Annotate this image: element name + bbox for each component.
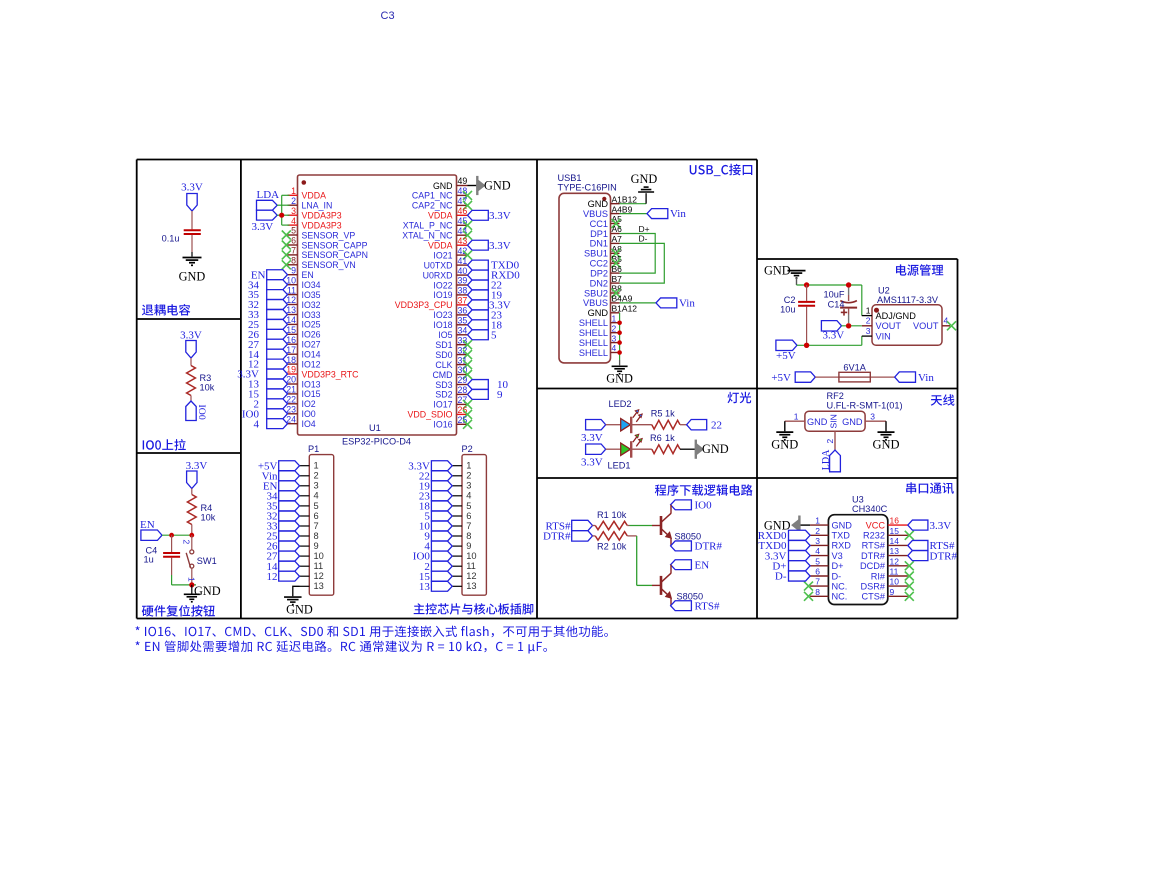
capacitor C2 10u	[780, 285, 815, 345]
svg-text:10: 10	[466, 551, 476, 561]
svg-text:A1B12: A1B12	[612, 194, 638, 204]
svg-text:IO22: IO22	[433, 280, 452, 290]
svg-text:IO14: IO14	[302, 350, 321, 360]
svg-text:0.1u: 0.1u	[162, 234, 180, 244]
svg-text:SHELL: SHELL	[579, 338, 608, 348]
U1 pin 25 IO16	[433, 415, 472, 430]
svg-text:IO34: IO34	[302, 280, 321, 290]
node label D+	[639, 224, 650, 234]
USB1 pin A6 DP1	[590, 224, 622, 239]
net flag 22 (P2 pin 2)	[419, 470, 452, 482]
svg-text:3: 3	[870, 412, 875, 422]
svg-text:GND: GND	[872, 438, 899, 452]
svg-text:GND: GND	[832, 520, 853, 530]
U3 pin 14 RTS#	[862, 536, 908, 551]
net flag DTR# (U3 pin13)	[908, 550, 958, 562]
svg-text:10k: 10k	[201, 513, 216, 523]
net flag 4 (P2 pin 9)	[424, 541, 452, 553]
svg-text:2: 2	[612, 323, 617, 333]
svg-text:NC.: NC.	[832, 581, 848, 591]
svg-text:+5V: +5V	[771, 372, 791, 384]
U3 pin 12 DCD#	[860, 556, 914, 571]
header P1 pin 11	[300, 561, 324, 571]
svg-text:R1: R1	[597, 510, 609, 520]
junction (SHELL 4)	[617, 350, 622, 355]
wire SHELL bus to GND	[619, 313, 621, 366]
header P2 pin 7	[452, 521, 471, 531]
net flag 3.3V (LED1)	[581, 444, 606, 469]
net flag 3.3V (U1 pin 19)	[237, 369, 287, 381]
svg-text:P2: P2	[462, 444, 473, 454]
net flag RTS# (input)	[545, 520, 592, 532]
svg-text:2: 2	[466, 471, 471, 481]
svg-text:IO35: IO35	[302, 290, 321, 300]
RF2 pin 3	[865, 412, 886, 422]
svg-text:9: 9	[890, 587, 895, 597]
svg-text:11: 11	[466, 561, 476, 571]
net flag 10 (U1 pin 29)	[468, 379, 509, 391]
net flag 26 (P1 pin 9)	[267, 541, 300, 553]
svg-text:16: 16	[890, 516, 900, 526]
svg-text:GND: GND	[631, 172, 658, 186]
svg-text:39: 39	[458, 276, 468, 286]
svg-text:C14: C14	[828, 299, 845, 309]
section title 硬件复位按钮	[142, 605, 215, 617]
svg-text:28: 28	[458, 385, 468, 395]
svg-text:8: 8	[466, 531, 471, 541]
header P2 pin 4	[452, 491, 471, 501]
svg-text:B7: B7	[612, 274, 623, 284]
svg-text:NC.: NC.	[832, 592, 848, 602]
svg-text:GND: GND	[194, 584, 221, 598]
U2 pin 1 ADJ/GND	[866, 306, 916, 321]
wire A1B12 to GND	[620, 193, 647, 204]
svg-text:IO27: IO27	[302, 340, 321, 350]
svg-text:RI#: RI#	[871, 571, 886, 581]
header P1 pin 3	[300, 481, 319, 491]
svg-text:R3: R3	[200, 373, 212, 383]
U3 pin 9 CTS#	[862, 587, 914, 602]
svg-text:XTAL_P_NC: XTAL_P_NC	[403, 221, 453, 231]
power ground (U3 pin1)	[764, 516, 800, 535]
U1 pin 12 IO32	[286, 295, 320, 310]
U1 pin 37 VDD3P3_CPU	[395, 296, 468, 311]
svg-text:R232: R232	[863, 531, 885, 541]
header P1 pin 8	[300, 531, 319, 541]
U1 pin 28 SD2	[435, 385, 467, 400]
svg-text:IO25: IO25	[302, 320, 321, 330]
header P2 pin 13	[452, 581, 476, 591]
svg-text:24: 24	[286, 414, 296, 424]
net flag 34 (U1 pin 10)	[248, 279, 288, 291]
svg-text:IO0: IO0	[196, 405, 207, 420]
svg-text:IO23: IO23	[433, 310, 452, 320]
svg-text:GND: GND	[606, 372, 633, 386]
svg-text:SENSOR_VP: SENSOR_VP	[302, 230, 356, 240]
svg-text:IO21: IO21	[433, 250, 452, 260]
svg-text:1: 1	[466, 461, 471, 471]
U1 pin 43 VDDA	[428, 236, 467, 251]
note line 1	[136, 626, 608, 638]
net flag 18 (P2 pin 5)	[419, 501, 452, 513]
net flag LDA (RF2)	[821, 449, 840, 472]
svg-text:12: 12	[286, 295, 296, 305]
net flag Vin (fuse)	[895, 372, 935, 384]
wire C4 bottom	[172, 558, 196, 585]
net flag DTR# (Q1 emitter)	[671, 541, 723, 553]
svg-text:GND: GND	[764, 264, 791, 278]
wire Q1 collector	[670, 505, 672, 514]
svg-text:IO4: IO4	[302, 419, 316, 429]
svg-text:4: 4	[291, 216, 296, 226]
wire R1 to Q1 base	[627, 525, 652, 527]
section title 灯光	[728, 392, 752, 403]
net flag IO0 (P2 pin 10)	[413, 551, 452, 563]
svg-text:3.3V: 3.3V	[581, 432, 603, 444]
net flag 14 (P1 pin 11)	[267, 561, 300, 573]
header P2 pin 5	[452, 501, 471, 511]
svg-text:XTAL_N_NC: XTAL_N_NC	[402, 231, 453, 241]
U1 pin 8 SENSOR_VN	[282, 256, 356, 271]
svg-text:CLK: CLK	[435, 360, 452, 370]
svg-text:IO17: IO17	[433, 400, 452, 410]
wire 3.3V to R3	[190, 358, 192, 366]
svg-text:DTR#: DTR#	[695, 541, 723, 553]
svg-text:4: 4	[314, 491, 319, 501]
svg-text:+5V: +5V	[776, 350, 796, 362]
LED2 (blue)	[606, 399, 652, 433]
USB1 pin A7 DN1	[590, 234, 623, 249]
ground (power mgmt)	[764, 264, 806, 286]
svg-text:CTS#: CTS#	[862, 592, 886, 602]
svg-text:A4B9: A4B9	[612, 204, 633, 214]
svg-text:GND: GND	[702, 442, 729, 456]
svg-text:36: 36	[458, 306, 468, 316]
svg-text:1: 1	[291, 186, 296, 196]
net flag 19 (U1 pin 38)	[468, 290, 503, 302]
net flag 19 (P2 pin 3)	[419, 480, 452, 492]
net flag 3.3V (U1 pin 46)	[468, 210, 511, 222]
header P1 body	[308, 444, 334, 595]
section title USB_C接口	[690, 164, 753, 176]
svg-text:ADJ/GND: ADJ/GND	[876, 311, 917, 321]
resistor R2 10k	[593, 532, 628, 552]
svg-text:43: 43	[458, 236, 468, 246]
svg-text:3.3V: 3.3V	[180, 330, 202, 342]
capacitor C14 10uF (polarized)	[824, 288, 858, 324]
ground (RF2 pin3)	[872, 432, 899, 451]
svg-text:13: 13	[890, 546, 900, 556]
power ground (LED1)	[696, 440, 729, 459]
svg-text:46: 46	[458, 206, 468, 216]
net flag TXD0 (U1 pin 41)	[468, 260, 520, 272]
svg-text:15: 15	[286, 325, 296, 335]
U1 pin 24 IO4	[286, 414, 316, 429]
svg-text:R2: R2	[597, 542, 609, 552]
svg-text:Vin: Vin	[918, 372, 934, 384]
header P1 pin 13	[300, 581, 324, 591]
U1 pin 48 CAP1_NC	[412, 186, 472, 201]
svg-text:10k: 10k	[612, 510, 627, 520]
svg-text:1: 1	[186, 577, 196, 582]
net flag Vin (A4B9)	[647, 208, 686, 220]
U1 pin 6 SENSOR_CAPP	[282, 236, 368, 251]
svg-text:SENSOR_CAPN: SENSOR_CAPN	[302, 250, 368, 260]
USB1 pin B4A9 VBUS	[583, 294, 633, 309]
U1 pin 17 IO14	[286, 345, 320, 360]
net flag 5 (P2 pin 6)	[424, 511, 452, 523]
svg-text:VCC: VCC	[866, 520, 886, 530]
svg-text:1: 1	[866, 306, 871, 316]
svg-text:13: 13	[419, 581, 431, 593]
svg-text:1: 1	[794, 412, 799, 422]
svg-text:12: 12	[466, 571, 476, 581]
USB1 pin B5 CC2	[590, 254, 623, 269]
svg-text:3.3V: 3.3V	[823, 330, 845, 342]
svg-text:13: 13	[286, 305, 296, 315]
svg-text:B6: B6	[612, 264, 623, 274]
svg-text:11: 11	[314, 561, 324, 571]
svg-text:GND: GND	[588, 308, 609, 318]
svg-text:3.3V: 3.3V	[489, 210, 511, 222]
svg-text:LED1: LED1	[608, 461, 631, 471]
net flag 12 (P1 pin 12)	[267, 571, 300, 583]
svg-text:B1A12: B1A12	[612, 304, 638, 314]
section title 程序下载逻辑电路	[655, 484, 753, 496]
U1 pin 47 CAP2_NC	[412, 196, 472, 211]
net flag 14 (U1 pin 17)	[248, 349, 288, 361]
svg-text:CC2: CC2	[590, 259, 608, 269]
svg-text:P1: P1	[308, 444, 319, 454]
svg-text:4: 4	[815, 546, 820, 556]
U1 pin 32 SD0	[435, 345, 472, 360]
net flag 2 (U1 pin 22)	[254, 398, 288, 410]
svg-text:9: 9	[291, 265, 296, 275]
net flag 3.3V (U3 pin4)	[765, 550, 810, 562]
USB1 pin 3 SHELL	[579, 333, 620, 348]
USB1 pin B7 DN2	[590, 274, 623, 289]
svg-text:2: 2	[866, 316, 871, 326]
U3 pin 8 NC.	[804, 587, 847, 602]
svg-text:7: 7	[466, 521, 471, 531]
U2 pin 2 VOUT	[862, 316, 902, 331]
U1 pin 45 XTAL_P_NC	[403, 216, 472, 231]
svg-text:3: 3	[612, 333, 617, 343]
net flag 18 (U1 pin 35)	[468, 319, 503, 331]
svg-text:GND: GND	[433, 181, 453, 191]
svg-text:U.FL-R-SMT-1(01): U.FL-R-SMT-1(01)	[827, 401, 903, 411]
net flag EN (U1 pin 9)	[251, 269, 288, 281]
header P2 pin 1	[452, 461, 471, 471]
svg-text:18: 18	[286, 355, 296, 365]
svg-text:10: 10	[890, 577, 900, 587]
net flag RXD0 (U3 pin2)	[758, 530, 810, 542]
ground (USB top)	[631, 172, 658, 192]
svg-text:7: 7	[314, 521, 319, 531]
svg-text:22: 22	[711, 419, 722, 431]
svg-text:49: 49	[458, 176, 468, 186]
svg-text:VDD_SDIO: VDD_SDIO	[408, 410, 453, 420]
net flag EN (Q2 collector)	[671, 559, 710, 571]
header P2 body	[462, 444, 487, 595]
svg-text:VDD3P3_RTC: VDD3P3_RTC	[302, 369, 360, 379]
net flag IO0 (down)	[186, 401, 207, 421]
U1 pin 3 VDDA3P3	[288, 206, 342, 221]
svg-text:8: 8	[815, 587, 820, 597]
header P2 pin 2	[452, 471, 471, 481]
wire P1 pin13 to GND	[293, 586, 300, 596]
svg-text:SD2: SD2	[435, 390, 452, 400]
svg-text:1k: 1k	[665, 433, 675, 443]
power flag 3.3V (decoupling)	[181, 182, 203, 212]
wire R3 to IO0 flag	[190, 396, 192, 402]
net flag 23 (P2 pin 4)	[419, 490, 452, 502]
svg-text:LDA: LDA	[257, 189, 280, 201]
wire 3.3V to VOUT	[842, 325, 862, 327]
svg-text:4: 4	[944, 316, 949, 326]
wire Q2 collector	[670, 565, 672, 574]
net flag +5V (P1 pin 1)	[258, 460, 300, 472]
svg-text:10u: 10u	[780, 305, 795, 315]
U1 pin 40 U0RXD	[423, 266, 468, 281]
svg-text:23: 23	[286, 405, 296, 415]
svg-text:10: 10	[314, 551, 324, 561]
svg-text:22: 22	[286, 395, 296, 405]
net flag 3.3V (U1 pin 3)	[252, 210, 278, 233]
svg-text:12: 12	[890, 556, 900, 566]
svg-text:38: 38	[458, 286, 468, 296]
U1 pin 2 LNA_IN	[288, 196, 333, 211]
svg-text:DSR#: DSR#	[860, 581, 885, 591]
chip U3 body	[828, 515, 887, 605]
svg-text:VOUT: VOUT	[876, 321, 902, 331]
power flag 3.3V (IO0 pull-up)	[180, 330, 202, 359]
power flag 3.3V (reset)	[186, 460, 208, 489]
svg-text:13: 13	[466, 581, 476, 591]
header P1 pin 5	[300, 501, 319, 511]
svg-text:EN: EN	[695, 559, 710, 571]
svg-text:3.3V: 3.3V	[181, 182, 203, 194]
U3 pin 2 TXD	[810, 526, 850, 541]
net flag 15 (P2 pin 12)	[419, 571, 452, 583]
svg-text:TXD: TXD	[832, 531, 851, 541]
U1 pin 18 IO12	[286, 355, 320, 370]
U1 pin 15 IO26	[286, 325, 320, 340]
svg-text:SENSOR_VN: SENSOR_VN	[302, 260, 356, 270]
net flag +5V (to VIN)	[776, 340, 797, 362]
svg-text:A7: A7	[612, 234, 623, 244]
net flag 22 (U1 pin 39)	[468, 280, 503, 292]
svg-text:IO32: IO32	[302, 300, 321, 310]
svg-text:11: 11	[890, 567, 899, 577]
U1 pin 31 CLK	[435, 355, 472, 370]
svg-text:VDDA3P3: VDDA3P3	[302, 220, 342, 230]
U1 pin 42 IO21	[433, 246, 472, 261]
net flag 13 (U1 pin 20)	[248, 379, 288, 391]
svg-text:LED2: LED2	[609, 399, 632, 409]
wire C4 top	[171, 535, 173, 552]
net flag LDA (U1 pin 2)	[257, 200, 278, 210]
U1 pin 7 SENSOR_CAPN	[282, 246, 368, 261]
svg-text:GND: GND	[484, 179, 511, 193]
regulator U2 body	[872, 305, 942, 346]
net flag RTS# (U3 pin14)	[908, 540, 955, 552]
net flag 15 (U1 pin 21)	[248, 389, 288, 401]
svg-text:CC1: CC1	[590, 219, 608, 229]
net flag 3.3V (U1 pin 37)	[468, 300, 511, 312]
connector USB1 body	[559, 193, 611, 363]
section title 串口通讯	[906, 482, 954, 493]
U1 pin 1 VDDA	[288, 186, 327, 201]
U1 pin 23 IO0	[286, 405, 316, 420]
USB1 pin A1B12 GND	[588, 194, 638, 209]
wire gnd rail	[797, 284, 862, 286]
svg-text:SHELL: SHELL	[579, 318, 608, 328]
net flag 3.3V (U3 pin16)	[908, 520, 951, 532]
svg-text:U0TXD: U0TXD	[424, 260, 453, 270]
svg-text:GND: GND	[588, 199, 609, 209]
svg-text:1: 1	[815, 516, 820, 526]
net flag D+ (U3 pin5)	[772, 561, 810, 573]
svg-text:RXD: RXD	[832, 541, 852, 551]
switch SW1	[182, 535, 217, 585]
svg-text:GND: GND	[286, 603, 313, 617]
svg-text:DTR#: DTR#	[543, 531, 571, 543]
wire Q2 emitter	[670, 598, 672, 606]
U1 pin 39 IO22	[433, 276, 467, 291]
net flag Vin (B4A9)	[656, 298, 695, 310]
svg-text:Vin: Vin	[679, 298, 695, 310]
note line 2	[136, 641, 548, 654]
svg-text:GND: GND	[807, 417, 828, 427]
stray text C3	[381, 10, 395, 22]
svg-text:U3: U3	[852, 495, 864, 505]
svg-text:IO19: IO19	[433, 290, 452, 300]
svg-text:14: 14	[890, 536, 900, 546]
svg-text:8: 8	[314, 531, 319, 541]
svg-text:12: 12	[267, 571, 278, 583]
U1 pin 10 IO34	[286, 275, 320, 290]
U1 pin 33 SD1	[435, 335, 472, 350]
net flag 3.3V (U2 VOUT)	[821, 321, 844, 342]
svg-text:10k: 10k	[612, 542, 627, 552]
junction (EN-C4)	[169, 533, 174, 538]
svg-text:USB1: USB1	[558, 173, 582, 183]
U1 pin 49 GND	[433, 176, 468, 191]
net flag EN (reset)	[140, 519, 162, 540]
svg-text:34: 34	[458, 326, 468, 336]
header P1 pin 7	[300, 521, 319, 531]
header P2 pin 9	[452, 541, 471, 551]
svg-text:3.3V: 3.3V	[186, 460, 208, 472]
net flag RTS# (Q2 emitter)	[671, 600, 720, 612]
svg-text:9: 9	[314, 541, 319, 551]
USB1 pin 2 SHELL	[579, 323, 620, 338]
svg-text:3.3V: 3.3V	[489, 240, 511, 252]
wire EN node	[162, 534, 192, 536]
net flag 26 (U1 pin 15)	[248, 329, 288, 341]
net flag 3.3V (U1 pin 43)	[468, 240, 511, 252]
U1 pin 9 EN	[288, 265, 314, 280]
ground (P1)	[284, 597, 313, 616]
capacitor C4 1u	[144, 546, 181, 565]
svg-text:U2: U2	[878, 286, 890, 296]
svg-text:SHELL: SHELL	[579, 328, 608, 338]
svg-text:3.3V: 3.3V	[252, 221, 274, 233]
header P1 pin 1	[300, 461, 319, 471]
net flag 34 (P1 pin 4)	[267, 490, 300, 502]
U1 pin 13 IO33	[286, 305, 320, 320]
